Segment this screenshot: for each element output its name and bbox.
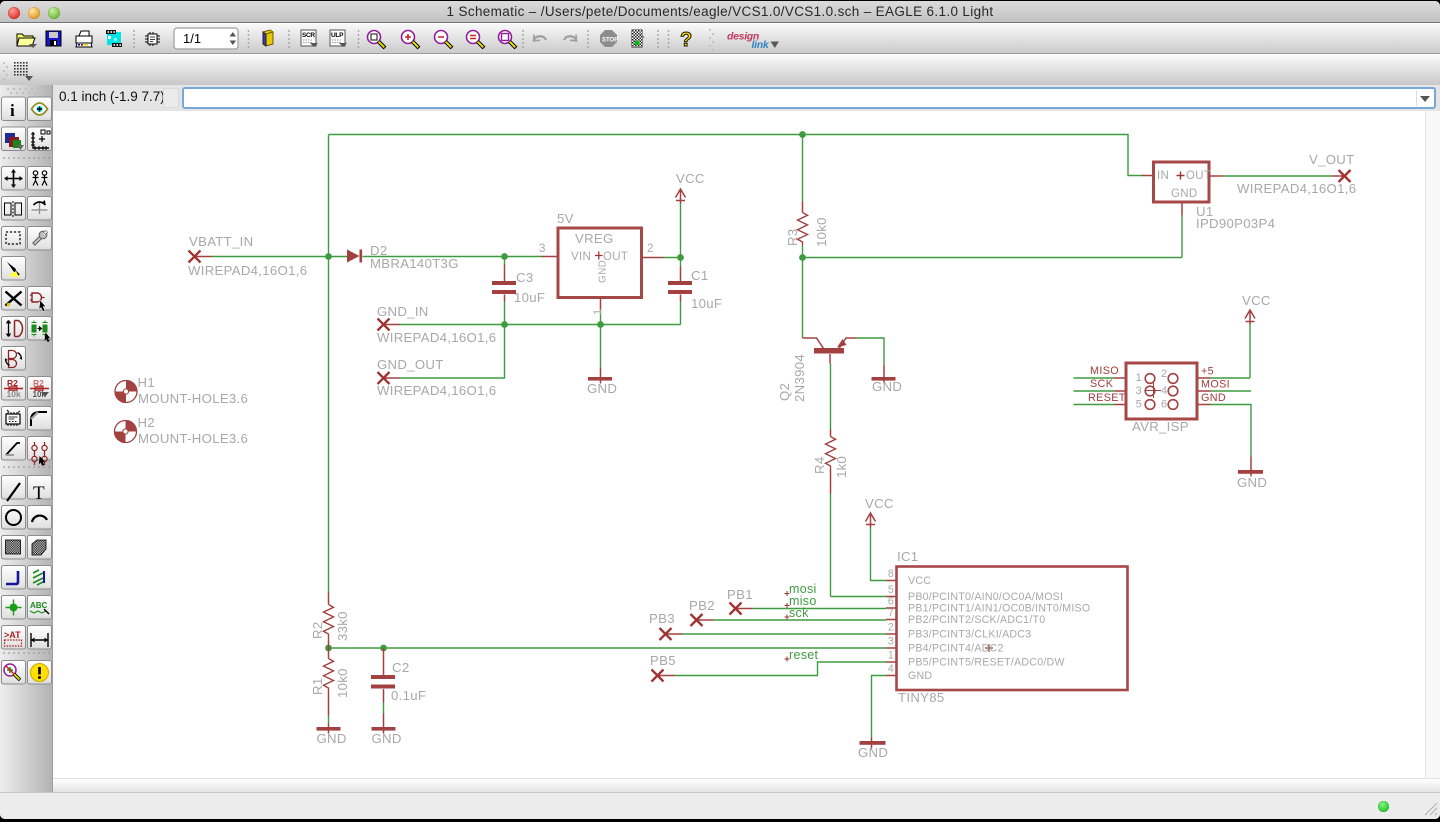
svg-text:STOP: STOP bbox=[602, 38, 618, 44]
svg-text:link: link bbox=[752, 39, 770, 51]
svg-text:>AT: >AT bbox=[4, 630, 21, 640]
svg-text:ULP: ULP bbox=[331, 32, 344, 39]
svg-text:ABC: ABC bbox=[30, 601, 48, 610]
svg-text:i: i bbox=[10, 101, 15, 120]
svg-text:1/1: 1/1 bbox=[183, 31, 201, 46]
svg-text:SCR: SCR bbox=[302, 32, 315, 39]
svg-text:T: T bbox=[33, 483, 45, 504]
svg-text:10k: 10k bbox=[7, 389, 21, 399]
svg-text:?: ? bbox=[680, 29, 692, 51]
